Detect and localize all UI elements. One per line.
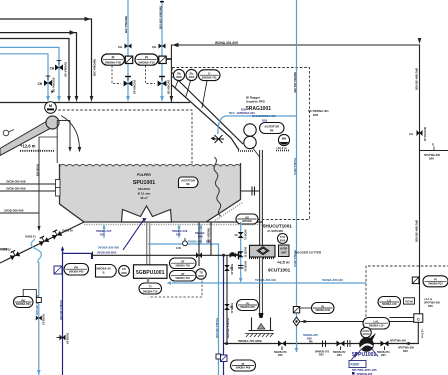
svg-text:UNIT: UNIT xyxy=(281,251,287,254)
wire blue vertical x128 xyxy=(127,0,129,97)
arrow down x171 bottom xyxy=(170,96,174,102)
navy branch y253.4 xyxy=(63,253,92,259)
svg-text:5VOB-31: 5VOB-31 xyxy=(244,230,247,241)
svg-text:5WONA-305-005: 5WONA-305-005 xyxy=(159,6,163,30)
svg-text:+10,4 m: +10,4 m xyxy=(276,146,287,150)
svg-text:D05: D05 xyxy=(403,349,408,353)
wire blue vertical x162 xyxy=(161,0,163,97)
pump motor circle xyxy=(361,327,371,337)
pump leader whiskers xyxy=(355,350,362,358)
navy vertical x62.5 xyxy=(62,250,64,375)
suction flange ticks xyxy=(349,340,351,347)
left inlet pipe 1 xyxy=(0,183,57,185)
dimension drop x70 xyxy=(69,121,71,149)
rotor vat crown xyxy=(122,206,172,222)
valve suction side xyxy=(337,341,345,347)
svg-text:5VOB-33: 5VOB-33 xyxy=(244,261,247,272)
inline sensor on dilution line xyxy=(183,241,188,246)
svg-text:5VOBA-305-045: 5VOBA-305-045 xyxy=(215,318,219,339)
svg-text:5WOBA-P03: 5WOBA-P03 xyxy=(16,303,31,306)
tank left wall xyxy=(59,164,61,204)
control valve 2 on x162 xyxy=(158,81,167,87)
PIC link line xyxy=(23,290,36,298)
bottom nozzle stub 2 blue xyxy=(178,227,180,238)
svg-text:0000: 0000 xyxy=(121,272,127,275)
conveyor belt body xyxy=(0,121,51,156)
control valve 1 on x128 xyxy=(124,81,133,87)
shower nozzle X xyxy=(213,135,224,143)
svg-text:D05: D05 xyxy=(319,354,324,357)
svg-text:77%: 77% xyxy=(280,235,286,239)
navy return line arrowed xyxy=(61,246,65,251)
diamond on riser xyxy=(293,317,300,326)
tank floor xyxy=(84,221,263,223)
drain valve 3 xyxy=(9,250,20,261)
svg-text:5VOB-20: 5VOB-20 xyxy=(62,229,73,233)
svg-text:D05: D05 xyxy=(429,157,434,161)
arrow down L3 xyxy=(67,96,71,102)
svg-text:+2,4 m: +2,4 m xyxy=(424,297,433,301)
dashed enclosure for drive xyxy=(149,281,203,298)
LAL stadium on line xyxy=(363,318,390,330)
valve on riser y133 xyxy=(417,130,423,136)
svg-text:5WOBA-L10: 5WOBA-L10 xyxy=(369,324,384,327)
instrument circle SIC1 xyxy=(173,69,184,80)
svg-text:6FA/62H: 6FA/62H xyxy=(138,187,150,191)
shower arrow xyxy=(211,137,215,141)
big dashed signal boundary xyxy=(172,68,309,220)
side line y213 xyxy=(0,212,39,214)
svg-text:0000: 0000 xyxy=(280,240,286,243)
valve A on x240.7 xyxy=(238,232,244,238)
stub box2 to riser xyxy=(166,58,171,60)
gauge box on riser xyxy=(293,307,299,313)
instrument circle SIC2 xyxy=(186,69,197,80)
svg-text:5VOBA-305: 5VOBA-305 xyxy=(188,240,203,244)
arrow down x162 xyxy=(160,96,164,102)
svg-text:5WOBA-A06: 5WOBA-A06 xyxy=(172,229,188,233)
svg-text:5VOBA-305-008: 5VOBA-305-008 xyxy=(98,246,119,250)
wire L5 blue xyxy=(0,54,48,97)
wire L1 black xyxy=(0,19,92,97)
svg-text:LAL: LAL xyxy=(373,319,379,323)
signal dashed from FI1 to control valve 1 xyxy=(112,66,121,84)
valve on x162 xyxy=(159,44,166,49)
svg-text:5VONA-06: 5VONA-06 xyxy=(51,78,55,93)
svg-text:CH: CH xyxy=(50,67,55,71)
right nozzle pipe to ragger box xyxy=(241,190,260,192)
ragger reel pulley 2 xyxy=(244,136,256,148)
navy meter square xyxy=(221,355,228,362)
guide vertical x57.2 xyxy=(56,121,58,164)
C box xyxy=(414,314,423,323)
instrument FI stadium 1 xyxy=(102,54,125,65)
arrow into corner L1 xyxy=(85,17,91,22)
inline meter box on x162 xyxy=(159,56,166,63)
svg-text:D05: D05 xyxy=(381,354,386,357)
elevation hatch xyxy=(20,150,54,152)
HS circle above cutter xyxy=(278,234,288,244)
flange tick on x240.7 xyxy=(238,265,243,267)
svg-text:5VOB-41: 5VOB-41 xyxy=(230,303,233,314)
wire L3 black xyxy=(0,39,69,98)
svg-text:5PUTWA-305-005: 5PUTWA-305-005 xyxy=(414,68,418,90)
svg-text:AT: AT xyxy=(181,260,185,264)
level instrument stadium in tank xyxy=(179,177,199,188)
dashed pump enclosure xyxy=(366,266,448,330)
svg-text:3VOB-305: 3VOB-305 xyxy=(36,164,40,177)
svg-text:AGITATOR: AGITATOR xyxy=(181,179,195,183)
svg-text:RAGGER CUTTER: RAGGER CUTTER xyxy=(295,251,322,255)
blue riser lower part x296.5 xyxy=(296,283,298,352)
valve V1 on L4 xyxy=(55,65,63,71)
branch tick xyxy=(433,147,435,151)
svg-text:5VOBA-305-050: 5VOBA-305-050 xyxy=(226,318,230,339)
flange pair on waste line xyxy=(322,341,324,348)
svg-text:AngleVy RPS: AngleVy RPS xyxy=(246,100,265,104)
svg-text:SIc: SIc xyxy=(189,71,194,75)
PSL square on navy xyxy=(54,266,62,274)
svg-text:XX: XX xyxy=(245,216,249,220)
svg-text:+6,5 m: +6,5 m xyxy=(277,260,290,265)
svg-text:KS06: KS06 xyxy=(351,363,360,367)
svg-text:0000: 0000 xyxy=(198,275,204,278)
svg-text:SC 5WONA-401: SC 5WONA-401 xyxy=(308,109,329,113)
suction header y255.3 xyxy=(93,254,241,256)
svg-text:PULPER: PULPER xyxy=(137,173,151,177)
signal dashed from FI2 to control valve 2 xyxy=(146,66,156,84)
svg-text:5WOBA-P06: 5WOBA-P06 xyxy=(315,309,330,312)
svg-text:3VOB-305-006: 3VOB-305-006 xyxy=(4,209,24,213)
svg-text:5PUTWA-305-005: 5PUTWA-305-005 xyxy=(414,220,418,242)
svg-text:CH: CH xyxy=(409,132,413,136)
svg-text:5WOBA-A05: 5WOBA-A05 xyxy=(96,229,112,233)
svg-text:5VOBA-305-0: 5VOBA-305-0 xyxy=(293,250,297,268)
svg-text:5VOB-24: 5VOB-24 xyxy=(66,333,70,344)
flexible hose blue S xyxy=(31,239,41,263)
valve on x227 upper xyxy=(224,265,230,271)
arrow down L5 blue xyxy=(46,96,50,102)
svg-text:D05: D05 xyxy=(241,108,247,112)
waste water line y343.5 xyxy=(224,343,420,345)
svg-text:5VOB-40: 5VOB-40 xyxy=(230,264,233,275)
bottom nozzle stub 1 blue xyxy=(103,227,105,238)
svg-text:C: C xyxy=(417,317,420,322)
svg-text:D05: D05 xyxy=(313,113,319,117)
ragger reel pulley 1 xyxy=(244,124,256,136)
svg-text:5PUTWA-305: 5PUTWA-305 xyxy=(424,153,441,157)
ragger rope double line upper xyxy=(259,150,261,245)
dimension line y120.5 xyxy=(57,120,70,122)
arrow into corner L2 xyxy=(70,30,76,35)
drain valve 2 xyxy=(38,235,49,246)
svg-text:PN: PN xyxy=(309,341,313,344)
nozzle flange 1 xyxy=(56,180,61,189)
pump discharge wedge xyxy=(368,333,376,342)
svg-text:D05: D05 xyxy=(337,354,342,357)
PI stadium top right xyxy=(423,276,448,287)
svg-text:5WOBA: 5WOBA xyxy=(195,231,205,235)
shower water pipe blue xyxy=(218,116,297,134)
svg-text:PI: PI xyxy=(434,278,437,282)
VO-M box xyxy=(404,298,415,304)
tank right wall xyxy=(240,163,242,200)
svg-text:D05: D05 xyxy=(262,119,268,123)
svg-text:5PUTWA-305: 5PUTWA-305 xyxy=(424,301,441,305)
svg-text:9CUT1001: 9CUT1001 xyxy=(268,268,291,273)
arrow down right corner xyxy=(418,38,422,44)
hose downpipe blue x39 xyxy=(38,262,40,375)
TI stadium below box xyxy=(139,283,162,294)
svg-text:D05: D05 xyxy=(278,354,283,357)
arrow left end collector xyxy=(167,281,172,285)
collection box xyxy=(249,318,274,331)
dashed stub left xyxy=(171,68,173,79)
svg-text:SPU1001: SPU1001 xyxy=(133,180,155,186)
svg-text:AGITATOR: AGITATOR xyxy=(264,124,280,128)
svg-text:MN: MN xyxy=(282,137,286,141)
agitator stadium xyxy=(260,123,285,134)
svg-text:5WOBA-P09: 5WOBA-P09 xyxy=(236,367,251,370)
arrow down L4 blue xyxy=(57,96,61,102)
svg-text:+12,6 m: +12,6 m xyxy=(20,144,36,149)
blue end mark xyxy=(295,348,299,353)
ragger rope squiggle in tank xyxy=(214,157,221,216)
svg-text:5VONA-05: 5VONA-05 xyxy=(63,62,67,77)
arrow bottom blue x39 xyxy=(37,370,41,375)
conveyor head pulley xyxy=(46,116,59,129)
svg-text:0.00: 0.00 xyxy=(176,247,181,250)
svg-text:5VONA-20: 5VONA-20 xyxy=(167,80,171,95)
svg-text:5VOB-23: 5VOB-23 xyxy=(42,314,46,325)
blue collector y283 xyxy=(172,282,367,284)
elevation hatch under cutter xyxy=(249,257,261,259)
tank left lower slope xyxy=(60,204,85,222)
outlet drop pipe x197 xyxy=(198,222,200,266)
ragger box stadium xyxy=(236,214,258,224)
svg-text:SIc: SIc xyxy=(177,71,182,75)
rope lower double line xyxy=(259,257,261,317)
svg-text:5WONA-401-005: 5WONA-401-005 xyxy=(293,72,297,93)
svg-text:PK: PK xyxy=(74,265,78,269)
floor hatch dotted xyxy=(84,224,263,226)
5GBPU1001 box xyxy=(134,265,168,279)
svg-text:5VOB-305-B05: 5VOB-305-B05 xyxy=(97,250,117,254)
svg-text:5PUTWA-305: 5PUTWA-305 xyxy=(390,339,407,343)
svg-text:5PUTWA-30: 5PUTWA-30 xyxy=(423,127,426,142)
svg-text:IC 9370400: IC 9370400 xyxy=(268,229,284,233)
svg-text:PK: PK xyxy=(21,298,25,302)
svg-text:CH: CH xyxy=(38,82,43,86)
header start flanges xyxy=(92,252,94,260)
svg-text:5WONA-305: 5WONA-305 xyxy=(124,16,128,34)
svg-text:5WOBA-705-036B: 5WOBA-705-036B xyxy=(238,339,262,343)
tail roller link xyxy=(9,130,15,133)
svg-text:5VOBA-305-005: 5VOBA-305-005 xyxy=(59,300,63,321)
net label tick x162 top xyxy=(160,1,164,2)
TS circle right xyxy=(196,269,206,279)
svg-text:3VOB-305-008: 3VOB-305-008 xyxy=(6,180,26,184)
PI stadium y305 xyxy=(237,300,259,311)
small mark above motor xyxy=(51,91,53,94)
svg-text:3VOB-305-009: 3VOB-305-009 xyxy=(6,187,26,191)
svg-text:D05: D05 xyxy=(176,232,181,236)
blue drain from tank floor x240.7 xyxy=(240,222,242,280)
svg-text:5WOBA-T15: 5WOBA-T15 xyxy=(143,291,158,294)
svg-text:5WOBA-305: 5WOBA-305 xyxy=(207,228,211,243)
svg-text:CH: CH xyxy=(118,45,122,49)
drain pipe diagonal xyxy=(0,222,84,263)
svg-text:5KS: 5KS xyxy=(229,111,235,115)
flow line to C box xyxy=(300,321,414,323)
branch y150 to right xyxy=(420,150,448,152)
drain valve 1 xyxy=(51,229,62,240)
valve on x128 xyxy=(125,44,132,49)
nozzle flange 2 xyxy=(56,188,61,197)
pump volute xyxy=(360,338,374,352)
floor line y102.5 xyxy=(0,102,190,104)
svg-text:CH: CH xyxy=(152,45,156,49)
valve V2 on L5 xyxy=(44,80,52,86)
svg-text:FI: FI xyxy=(112,56,115,60)
svg-text:5VONA-10: 5VONA-10 xyxy=(133,80,137,95)
svg-text:RE: RE xyxy=(270,128,274,132)
valve discharge side xyxy=(381,341,389,347)
pulper cover dashed outline xyxy=(45,110,192,177)
left inlet pipe 2 xyxy=(0,190,57,192)
svg-text:LS: LS xyxy=(387,298,391,302)
winch motor circle xyxy=(278,134,289,145)
svg-text:PI: PI xyxy=(321,304,324,308)
shaft to TI xyxy=(147,278,149,283)
chute upper edge xyxy=(178,80,244,145)
svg-text:+2,0 m: +2,0 m xyxy=(421,329,425,338)
svg-text:PI: PI xyxy=(246,301,249,305)
svg-text:D: D xyxy=(432,143,434,147)
arrow down L1 xyxy=(90,96,94,102)
slope hatch dotted xyxy=(209,202,243,225)
arrow down L2 xyxy=(75,96,79,102)
svg-text:48 m³: 48 m³ xyxy=(140,196,148,200)
svg-text:5VOB-21: 5VOB-21 xyxy=(25,235,36,239)
rotor flow arrow navy xyxy=(123,219,145,251)
pile in box xyxy=(258,324,266,330)
valve on drop pipe x227 xyxy=(224,304,230,310)
inline meter box on x128 xyxy=(125,56,132,63)
svg-text:U: U xyxy=(208,71,210,75)
svg-text:Ø 12 mm: Ø 12 mm xyxy=(138,191,151,195)
instrument FI stadium 2 xyxy=(135,54,158,65)
pipe header y45 xyxy=(171,45,419,129)
svg-text:5HUCUT1001: 5HUCUT1001 xyxy=(263,224,292,229)
svg-text:5WOBA-P10: 5WOBA-P10 xyxy=(428,282,443,285)
leg SIC2 to chute xyxy=(186,81,191,97)
wire L4 blue xyxy=(0,47,59,97)
flange pair on right nozzle xyxy=(251,187,253,196)
drop line x39 xyxy=(38,137,40,227)
arrow into corner header xyxy=(172,43,178,48)
svg-text:WONA-301-005: WONA-301-005 xyxy=(215,41,238,45)
svg-text:TS: TS xyxy=(199,270,203,274)
LS stadium xyxy=(378,297,401,308)
5GBPU motor row : D-stadium xyxy=(96,265,117,278)
leg U to chute xyxy=(202,81,207,108)
svg-text:5VOB: 5VOB xyxy=(1,247,8,251)
PI stadium right of riser xyxy=(312,303,335,314)
svg-text:5VOBA-305-040: 5VOBA-305-040 xyxy=(322,278,343,282)
line LAL to C xyxy=(390,317,414,319)
svg-text:5WONA-F05: 5WONA-F05 xyxy=(105,61,122,65)
svg-text:5GBPU1001: 5GBPU1001 xyxy=(136,270,165,276)
svg-text:D05: D05 xyxy=(100,232,105,236)
junction dot navy line xyxy=(222,254,225,257)
svg-text:VO-M: VO-M xyxy=(405,300,413,304)
elevation hatch left of reel xyxy=(238,150,254,152)
riser blue x296.5 xyxy=(296,0,298,283)
conveyor drive motor M xyxy=(45,102,57,114)
tank right slope xyxy=(206,200,241,223)
svg-text:5VOBA-305-0: 5VOBA-305-0 xyxy=(293,158,297,176)
valve B on x240.7 at header junction xyxy=(238,251,244,257)
flow arrow left on discharge xyxy=(405,342,410,346)
dimension line y137 xyxy=(39,136,57,138)
riser x419 lower part xyxy=(410,322,418,343)
svg-text:PI: PI xyxy=(242,362,245,366)
svg-text:5KS12/WONA-001: 5KS12/WONA-001 xyxy=(252,114,276,118)
outlet drop pipe x211 xyxy=(210,222,212,255)
svg-text:TI: TI xyxy=(149,285,152,289)
svg-text:5WONA-305: 5WONA-305 xyxy=(93,59,97,77)
svg-text:5VOBA-305-040: 5VOBA-305-040 xyxy=(255,278,276,282)
ground hatch under box xyxy=(245,334,274,338)
svg-text:5WOBA-P05: 5WOBA-P05 xyxy=(240,306,255,309)
gauge box on blue x39 xyxy=(36,298,41,303)
conveyor tail roller xyxy=(3,130,9,136)
hydraulic unit box xyxy=(279,245,290,257)
svg-text:5WONA-701: 5WONA-701 xyxy=(202,75,217,79)
svg-text:5WOBA-605: 5WOBA-605 xyxy=(303,333,318,337)
svg-text:FI: FI xyxy=(145,56,148,60)
pump tag box blue xyxy=(349,361,366,368)
cutter body xyxy=(250,245,276,257)
wire L2 black xyxy=(0,33,77,97)
svg-text:D05: D05 xyxy=(307,336,312,340)
svg-text:FS: FS xyxy=(122,267,126,271)
riser x419 middle part xyxy=(419,129,421,314)
cutter blades diamonds xyxy=(257,247,269,255)
sample valve on blue x39 xyxy=(36,316,42,321)
rotor shaft double line xyxy=(146,222,148,265)
svg-text:5WONA-F10: 5WONA-F10 xyxy=(138,61,155,65)
arrow down x128 xyxy=(126,96,130,102)
svg-text:5WOBA-L05: 5WOBA-L05 xyxy=(382,303,397,306)
svg-text:5WOBA-T05: 5WOBA-T05 xyxy=(175,264,190,267)
svg-text:5WOBA-T10: 5WOBA-T10 xyxy=(175,277,190,280)
bottom nozzle stub 3 blue xyxy=(200,227,202,244)
valve at x197 junction xyxy=(196,252,202,258)
end bar on suction header xyxy=(238,252,240,260)
svg-text:5VOB-32: 5VOB-32 xyxy=(244,247,247,258)
leg SIC1 to chute xyxy=(175,81,178,88)
PI stadium y365 xyxy=(231,360,256,371)
top right gauge square xyxy=(412,277,419,284)
svg-text:5WOBA-30: 5WOBA-30 xyxy=(96,267,111,271)
svg-text:0000: 0000 xyxy=(189,76,195,79)
svg-text:HYDR: HYDR xyxy=(280,248,287,251)
svg-text:AT: AT xyxy=(181,272,185,276)
PSL stadium xyxy=(64,264,89,276)
material trajectory arc xyxy=(61,116,80,149)
